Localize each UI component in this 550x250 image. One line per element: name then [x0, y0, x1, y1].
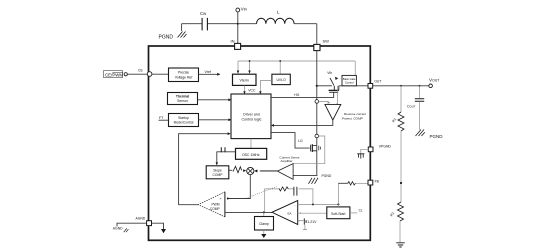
block Thermal Sensor — [168, 93, 198, 105]
svg-text:Control: Control — [345, 80, 354, 84]
svg-text:Vref: Vref — [205, 70, 211, 74]
node FT — [159, 116, 169, 120]
wire EA inverting input / FB sense — [298, 203, 340, 205]
svg-text:Thermal: Thermal — [176, 95, 189, 99]
wire FB internal with resistor — [338, 182, 368, 185]
pin FB — [368, 179, 380, 185]
svg-text:AGND: AGND — [113, 226, 123, 230]
pin CE (circle on edge) — [138, 69, 152, 77]
wire SW node internal — [316, 51, 318, 144]
wire multiplier to PWM comp — [228, 175, 250, 199]
node rectifier input — [316, 85, 318, 87]
ground PGND internal — [309, 174, 332, 184]
ground PGND (right) — [416, 130, 444, 140]
svg-text:VOUT: VOUT — [429, 78, 439, 83]
wire current sense into multiplier — [255, 170, 278, 173]
svg-text:Vterm: Vterm — [240, 79, 249, 83]
resistor R1 divider — [391, 86, 404, 131]
wire startup to driver — [199, 118, 232, 121]
terminal VIN — [236, 7, 248, 12]
svg-text:-: - — [299, 219, 300, 223]
wire EA out to PWM comp (COMP net) — [225, 212, 272, 214]
block OSC — [236, 148, 267, 159]
block Back Gate Control — [342, 75, 356, 85]
transistor Q2 switch NMOS — [310, 144, 320, 152]
svg-text:Reverse current: Reverse current — [344, 112, 366, 116]
comparator reverse current protection — [319, 86, 367, 121]
svg-text:PGND: PGND — [159, 35, 174, 41]
pin PGND (right, grounded internally) — [368, 145, 391, 152]
svg-text:Soft-Start: Soft-Start — [331, 212, 345, 216]
svg-text:EA: EA — [287, 211, 291, 215]
wire HG gate drive — [271, 93, 334, 97]
node divider junction — [400, 85, 402, 87]
pin AGND — [136, 216, 152, 225]
svg-text:LG: LG — [298, 139, 303, 143]
ramp waveform glyph — [229, 166, 246, 173]
svg-text:Voltage Ref: Voltage Ref — [175, 75, 193, 79]
block Slope COMP — [206, 166, 229, 179]
pin IN — [231, 39, 241, 50]
svg-text:Precise: Precise — [178, 71, 189, 75]
comparator PWM COMP — [198, 192, 225, 217]
resistor R2 divider — [389, 202, 403, 221]
pin SW — [314, 39, 329, 51]
ground (bottom right) — [396, 243, 404, 247]
svg-text:UVLO: UVLO — [276, 78, 286, 82]
svg-text:COUT: COUT — [407, 105, 416, 109]
svg-text:Protect. COMP: Protect. COMP — [342, 117, 364, 121]
svg-text:OSC 1MHz: OSC 1MHz — [242, 153, 260, 157]
wire OSC to slope comp — [216, 147, 236, 165]
error amp EA — [272, 201, 302, 225]
svg-text:1.21V: 1.21V — [307, 220, 317, 224]
svg-text:PGND: PGND — [430, 134, 444, 139]
IC outline big box — [149, 46, 371, 240]
node PWM input — [227, 198, 229, 200]
wire thermal to driver — [198, 98, 232, 101]
dashed leader line — [246, 187, 277, 199]
wire current sense taps — [293, 136, 325, 164]
svg-text:COMP: COMP — [210, 207, 221, 211]
wire R2 to ground — [399, 221, 401, 243]
terminal CE/PWM — [104, 71, 128, 78]
svg-text:Back Gate: Back Gate — [343, 77, 356, 81]
svg-text:Vth: Vth — [327, 71, 332, 75]
wire CE pin to voltage ref — [152, 73, 169, 75]
svg-text:CL: CL — [359, 209, 363, 213]
wire CE to pin — [127, 73, 147, 75]
node SW sense upper — [315, 100, 319, 104]
svg-text:+: + — [328, 101, 330, 105]
wire OUT to VOUT — [373, 85, 429, 87]
capacitor CIN — [182, 11, 237, 30]
op-amp current sense — [254, 155, 299, 179]
svg-text:-: - — [294, 203, 295, 207]
svg-text:CIN: CIN — [200, 11, 207, 16]
svg-text:CE/PWM: CE/PWM — [105, 72, 123, 77]
reference 1.21V — [298, 218, 317, 229]
wire PWM comp output loop to driver — [179, 132, 231, 204]
terminal VOUT — [429, 78, 439, 88]
ground internal comb — [357, 154, 364, 159]
block Soft Start — [327, 207, 350, 219]
pin OUT — [368, 80, 381, 89]
wire VCC Vterm to driver — [243, 85, 256, 94]
wire supply rail to Vterm/UVLO — [237, 60, 355, 75]
node SW sense lower — [315, 134, 319, 138]
wire AGND internal arrow — [152, 223, 167, 233]
svg-text:OUT: OUT — [374, 80, 381, 84]
svg-text:CE: CE — [138, 69, 143, 73]
wire driver to OSC — [250, 139, 252, 149]
svg-text:COMP: COMP — [213, 173, 224, 177]
svg-text:Clamp: Clamp — [259, 222, 269, 226]
svg-text:VCC: VCC — [248, 88, 256, 92]
svg-text:-: - — [336, 101, 337, 105]
compensation R-C network — [265, 187, 313, 213]
svg-text:+: + — [220, 197, 222, 201]
node comp/clamp — [263, 211, 265, 213]
wire FB to soft start / EA — [337, 183, 339, 207]
svg-text:VPGND: VPGND — [379, 145, 392, 149]
wire soft start output CL — [350, 209, 363, 213]
wire VIN down to IN pin — [237, 12, 239, 44]
wire LG gate drive — [271, 133, 310, 149]
multiplier node — [247, 167, 254, 174]
svg-text:Sensor: Sensor — [177, 99, 189, 103]
ground PGND (top-left) — [159, 32, 187, 41]
block UVLO — [272, 74, 290, 84]
svg-text:PGND: PGND — [322, 174, 332, 178]
node COUT junction — [419, 85, 421, 87]
svg-text:VIN: VIN — [241, 7, 248, 12]
svg-text:HG: HG — [294, 93, 299, 97]
svg-text:IN: IN — [231, 39, 235, 44]
block Vterm — [233, 74, 257, 85]
node VIN junction — [237, 23, 239, 25]
wire L to SW pin — [316, 24, 318, 45]
svg-text:Amplifier: Amplifier — [281, 159, 293, 163]
block Driver logic U-drv — [231, 94, 271, 139]
svg-text:Control logic: Control logic — [242, 118, 262, 122]
wire EA + input from soft start — [298, 212, 327, 214]
svg-text:FB: FB — [375, 179, 380, 183]
wire R1 to FB node — [400, 131, 402, 202]
svg-text:Mode/Control: Mode/Control — [174, 120, 194, 124]
svg-text:Slope: Slope — [213, 168, 222, 172]
block Voltage Reference U-ref — [169, 68, 199, 82]
svg-text:PWM: PWM — [211, 202, 219, 206]
block Startup Mode Control — [169, 114, 199, 127]
svg-text:SW: SW — [323, 39, 330, 44]
capacitor COUT — [407, 86, 424, 130]
ground AGND external — [113, 226, 129, 232]
svg-text:Startup: Startup — [178, 116, 189, 120]
inductor L — [238, 10, 317, 24]
wire UVLO to driver — [259, 81, 272, 95]
ground clamp — [261, 230, 266, 238]
wire AGND external — [117, 223, 147, 226]
transistor Q1 synchronous rectifier PMOS — [317, 71, 369, 97]
wire Vref output — [199, 70, 221, 76]
node FB external — [400, 182, 402, 184]
svg-text:AGND: AGND — [136, 216, 146, 220]
wire NFET source to PGND — [316, 144, 318, 176]
svg-text:Driver and: Driver and — [243, 113, 260, 117]
wire PGND pin to internal ground — [361, 149, 369, 153]
wire comparator to driver — [271, 120, 333, 127]
block Clamp — [255, 212, 274, 230]
wire CIN to PGND — [181, 24, 183, 31]
